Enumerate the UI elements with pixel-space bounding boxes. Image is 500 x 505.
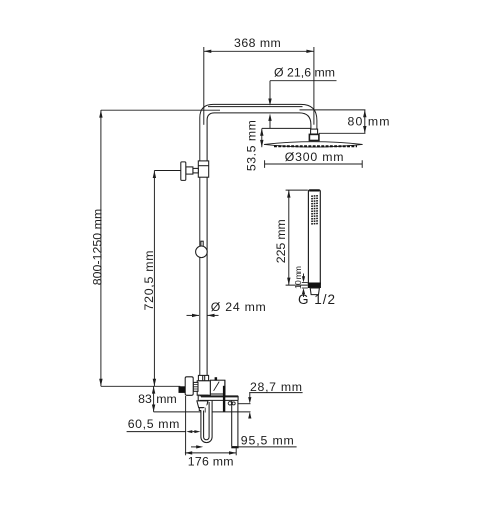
slider bracket stem xyxy=(186,167,193,174)
dimension 28.7 leader + arrows xyxy=(249,393,251,398)
slider bracket knob xyxy=(181,162,186,181)
dimension 800-1250 bottom extension xyxy=(101,385,180,387)
dimension 720.5 top extension xyxy=(154,170,181,172)
svg-text:28,7 mm: 28,7 mm xyxy=(250,380,302,394)
dimension 80 mm bottom extension xyxy=(319,132,366,134)
dimension 225 mm bottom tick xyxy=(286,284,308,286)
svg-text:Ø 24 mm: Ø 24 mm xyxy=(211,300,266,314)
dimension 225 mm top tick xyxy=(286,189,308,191)
pole bottom fitting xyxy=(198,375,208,380)
dimension 80 mm line xyxy=(364,110,366,133)
dimension d21.6 underline xyxy=(270,80,337,82)
hose drop tube bottom cap xyxy=(231,446,238,448)
dimension 800-1250 line xyxy=(100,110,102,386)
hand shower spray stripes xyxy=(311,196,318,224)
svg-text:80 mm: 80 mm xyxy=(348,115,390,129)
holder cup circles xyxy=(228,402,231,405)
dimension d21.6 upper arrow xyxy=(268,99,271,106)
slider bracket flange xyxy=(193,168,198,173)
spout J-tube outer xyxy=(201,401,212,443)
dimension 60.5 arrows xyxy=(186,430,192,433)
mixer right block xyxy=(210,380,225,394)
mixer handle stem ridges xyxy=(193,382,198,391)
spout inner tick xyxy=(204,408,206,413)
head connector box 1 xyxy=(311,129,318,134)
dimension d21.6 leader down xyxy=(269,81,271,99)
pole fitting ticks xyxy=(203,375,205,380)
wall mount square xyxy=(179,386,186,393)
dimension 95.5 line xyxy=(191,446,197,448)
svg-text:mm: mm xyxy=(156,392,177,406)
dimension 225 mm arrows xyxy=(287,190,290,285)
dimension 225 mm line xyxy=(288,190,290,285)
svg-text:83: 83 xyxy=(138,392,152,406)
dimension d300 line xyxy=(265,163,363,165)
mixer right block nub xyxy=(215,377,218,380)
dimension 368 mm line xyxy=(204,50,314,52)
dimension 800-1250 top extension xyxy=(101,109,220,111)
dimension d21.6 lower arrow shaft xyxy=(269,121,271,129)
shower head nozzle band xyxy=(274,145,357,147)
svg-text:53.5 mm: 53.5 mm xyxy=(244,120,258,171)
holder stem on pole xyxy=(201,241,203,246)
dimension 83 mm arrows xyxy=(152,386,155,412)
mount trapezoid under arm xyxy=(197,401,208,408)
dimension 80 mm arrows xyxy=(363,110,366,133)
dimension 176 arrows xyxy=(185,451,236,454)
side arm tube xyxy=(200,396,239,401)
dimension 28.7 underline xyxy=(249,392,302,394)
dimension 28.7 top ref line xyxy=(238,403,251,405)
spout J-tube inner xyxy=(204,402,210,440)
dimension 95.5 arrow xyxy=(196,445,203,448)
under-body connector xyxy=(198,395,208,401)
diverter pin (bold) xyxy=(223,386,225,412)
slider bracket body on pole xyxy=(198,161,208,177)
dimension 720.5 line xyxy=(153,171,155,387)
dimension 80 mm top extension xyxy=(300,109,366,111)
dimension 10 mm upper arrow xyxy=(303,274,305,277)
dimension 176 right extension xyxy=(235,448,237,455)
mount small block xyxy=(199,408,206,411)
svg-text:95,5 mm: 95,5 mm xyxy=(241,433,294,447)
svg-text:60,5 mm: 60,5 mm xyxy=(128,417,180,431)
dimension 83 mm bottom ref line xyxy=(154,411,201,413)
hand shower bottom black band xyxy=(308,283,321,289)
mixer main body xyxy=(197,381,210,395)
dimension 53.5 line xyxy=(261,128,263,147)
dimension 53.5 top extension xyxy=(262,127,311,129)
dimension 368 mm right extension xyxy=(313,47,315,125)
dimension 176 line xyxy=(185,452,236,454)
dimension d24 right arrow xyxy=(207,314,218,316)
dimension 176 left extension xyxy=(185,396,187,455)
svg-text:176 mm: 176 mm xyxy=(188,454,234,468)
svg-text:Ø 21,6 mm: Ø 21,6 mm xyxy=(274,65,335,79)
dimension 720.5 arrows xyxy=(153,171,156,387)
dimension 10 mm ticks xyxy=(302,282,308,284)
dimension 800-1250 arrows xyxy=(99,110,102,386)
dimension d300 end ticks xyxy=(265,160,363,168)
svg-text:720,5 mm: 720,5 mm xyxy=(142,251,156,311)
dimension 60.5 line xyxy=(127,431,186,433)
shower arm outer contour xyxy=(200,104,317,375)
shower arm top contour line xyxy=(208,106,303,108)
dimension 368 mm arrows xyxy=(204,50,314,53)
holder ball on pole xyxy=(196,246,208,258)
mixer right block diagonal xyxy=(214,382,220,391)
hand shower G1/2 connector xyxy=(310,288,319,295)
hand shower wand body xyxy=(308,190,320,285)
slider bracket body cap line xyxy=(198,165,208,167)
svg-text:G 1/2: G 1/2 xyxy=(298,292,335,307)
dimension 368 mm left extension xyxy=(203,47,205,125)
shower head disc xyxy=(264,142,363,147)
mixer handle disc xyxy=(185,377,193,396)
svg-text:800-1250 mm: 800-1250 mm xyxy=(91,209,105,286)
hand shower top cap line xyxy=(309,190,319,192)
dimension 10 mm lower arrow xyxy=(303,294,305,297)
svg-text:10 mm: 10 mm xyxy=(293,266,303,289)
svg-text:Ø300 mm: Ø300 mm xyxy=(285,150,344,164)
svg-text:368 mm: 368 mm xyxy=(234,36,281,50)
dimension d24 left arrow xyxy=(187,314,200,316)
head connector box 2 xyxy=(309,134,319,140)
dimension 53.5 arrows xyxy=(260,128,263,147)
dimension 83 mm line xyxy=(153,386,155,412)
svg-text:225 mm: 225 mm xyxy=(274,219,288,263)
mixer right block right edge xyxy=(224,380,226,396)
hose drop tube xyxy=(232,401,238,447)
shower arm inner contour xyxy=(207,113,311,376)
